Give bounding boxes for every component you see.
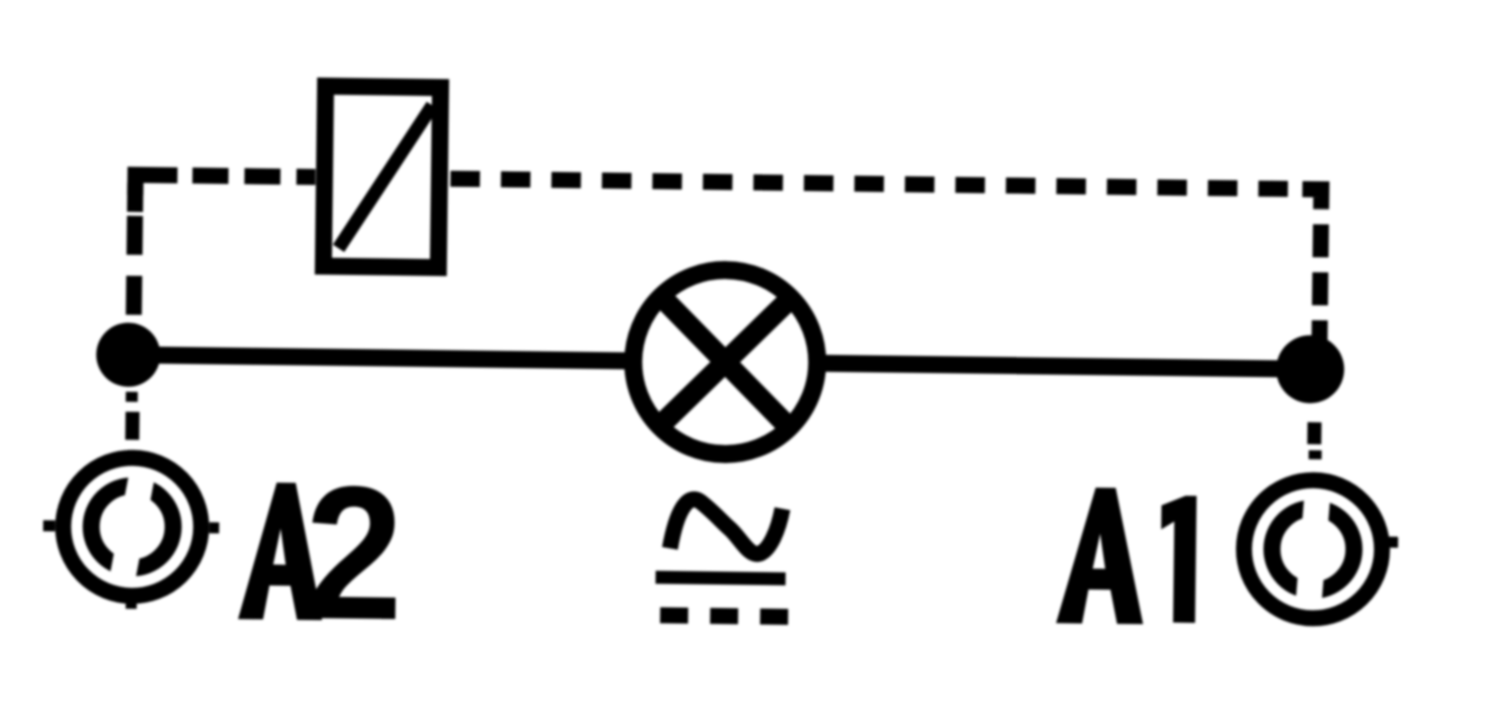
wire: dashed control line, top left horizontal (corner to relay coil) — [192, 176, 315, 178]
label A1 — [1056, 487, 1197, 625]
wire: dashed control line, top right horizontal (relay coil to right corner) — [450, 179, 1302, 189]
terminal A2 (screw terminal symbol) — [42, 457, 220, 610]
lamp L1 (circle with X) — [632, 269, 818, 455]
node: left junction dot — [96, 322, 161, 387]
wire: main horizontal wire A2-A1 — [128, 355, 1311, 369]
wire: dashed stub from right node to terminal A1 — [1314, 422, 1315, 459]
node: right junction dot — [1276, 335, 1345, 404]
wire: dashed stub from left node to terminal A2 — [131, 392, 133, 440]
wire: dashed control line, left vertical (node to top-left corner) — [133, 183, 135, 345]
relay coil K (rectangle with diagonal) — [323, 86, 440, 267]
wire: dashed control line, right vertical (corner down to node) — [1319, 208, 1321, 359]
label A2 — [238, 445, 405, 659]
wire: top-left corner piece — [135, 175, 177, 213]
wire: top-right corner piece — [1302, 189, 1321, 208]
label: AC/DC supply symbol (sine over solid over dashed line) — [655, 499, 789, 617]
svg-text:2: 2 — [304, 446, 405, 659]
terminal A1 (screw terminal symbol) — [1243, 479, 1399, 619]
